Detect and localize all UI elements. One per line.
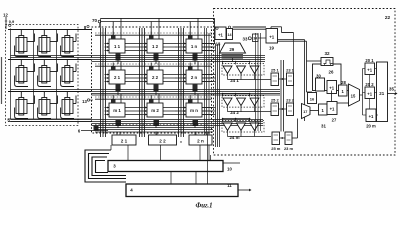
counter block 27: [327, 102, 337, 115]
dashed line matrix bottom: [95, 124, 208, 126]
wire bus3 to bus4 vertical b: [195, 172, 197, 185]
svg-text:+1: +1: [330, 107, 335, 112]
cell column divider wire b: [56, 30, 58, 120]
svg-text:23 1: 23 1: [286, 68, 295, 73]
row select dashed wire: [95, 32, 212, 34]
vertical drops to row blocks 2x: [116, 132, 118, 136]
wire vertical x293: [293, 33, 295, 104]
wires matrix row1 to box22: [202, 43, 216, 45]
wire left margin: [1, 57, 3, 104]
wire 14 to 19 top bus: [233, 26, 267, 28]
element block 28: [339, 85, 348, 96]
matrix cell block 1 n: [182, 18, 214, 64]
counter block 20 2: [365, 87, 375, 99]
bottom cell-box bus wire a: [8, 118, 91, 120]
DAC group box 24 2 dashed border: [222, 96, 264, 108]
counter block in 26: [327, 81, 337, 94]
node 33 terminal: [248, 37, 251, 40]
ellipsis dots: [176, 47, 177, 48]
horizontal bus bundle row2: [11, 89, 281, 91]
svg-text:+1: +1: [329, 86, 334, 91]
svg-text:10: 10: [227, 167, 232, 172]
memory cell transistor pair: [61, 60, 76, 87]
memory cell transistor pair: [38, 92, 58, 119]
row line r1 top: [8, 29, 91, 31]
feed wire 24 m: [223, 118, 250, 120]
wire 27 to 15: [337, 102, 349, 104]
svg-text:12: 12: [3, 13, 8, 18]
wire 32 to 26: [324, 64, 326, 66]
register block 21: [377, 62, 388, 122]
control unit box 22 dashed border: [214, 9, 396, 156]
wire box22 drop to bus 4: [207, 132, 209, 185]
DAC triangle 24 m.1: [223, 123, 232, 137]
wire 26 to 27: [331, 91, 333, 102]
bus block 3: [108, 161, 223, 172]
matrix cell block m 1: [105, 94, 143, 128]
DAC triangle 24 1.1: [223, 66, 232, 80]
label 10 and stub: [223, 162, 240, 164]
matrix cell block 2 n: [182, 61, 214, 95]
svg-text:Фиг.1: Фиг.1: [195, 202, 212, 209]
wire between registers: [279, 78, 287, 80]
memory cell transistor pair: [15, 92, 35, 119]
output wire 35: [387, 93, 396, 95]
register block 23 2: [286, 98, 295, 116]
storage matrix box 5 dashed border: [6, 25, 79, 126]
wire 16 to 26 drop: [307, 91, 313, 93]
DAC triangle 24 m.3: [250, 123, 259, 137]
bus wire top a: [101, 17, 215, 19]
svg-text:+1: +1: [269, 35, 275, 40]
svg-text:31: 31: [321, 124, 326, 129]
wire 20m to 21 stub: [370, 122, 372, 124]
counter block 20 m: [366, 109, 376, 122]
wire 15 to 20 bus: [360, 94, 363, 96]
register block 2 n: [189, 135, 212, 145]
matrix cell block m n: [182, 94, 214, 128]
vertical bundle x255-261: [255, 33, 257, 131]
memory cell transistor pair: [38, 30, 58, 57]
svg-text:14: 14: [228, 33, 232, 37]
matrix cell block m 2: [143, 94, 182, 128]
row select dashed wire: [95, 96, 212, 98]
svg-text:25 2: 25 2: [271, 98, 280, 103]
svg-text:1 2: 1 2: [152, 44, 159, 49]
wire 12 vertical: [5, 17, 7, 29]
horizontal bus bundle matrix bottom: [95, 127, 213, 129]
left feed wires into box 22: [215, 44, 217, 147]
row select bus wire: [95, 34, 212, 36]
svg-text:25 1: 25 1: [271, 68, 280, 73]
register block 30: [316, 78, 325, 91]
svg-text:m 1: m 1: [113, 108, 121, 113]
multiplexer trapezoid 15: [349, 84, 360, 106]
memory cell transistor pair: [61, 30, 76, 57]
element block 16: [308, 93, 317, 104]
wire 17 to 27: [310, 110, 319, 112]
ellipsis dots: [176, 78, 177, 79]
register block 2 1: [112, 135, 136, 145]
feed wire 24 2: [223, 93, 250, 95]
wires matrix row2 to box22: [202, 74, 216, 76]
row separator wire 3: [8, 91, 91, 93]
wire 20-1 to 20-2: [369, 75, 371, 88]
svg-text:21: 21: [379, 91, 384, 96]
register block 14: [227, 26, 233, 40]
svg-text:22: 22: [385, 15, 391, 21]
horizontal bus bundle row1: [11, 55, 266, 57]
wires brackets up: [110, 145, 112, 150]
dot between 2 2 and 2 n: [180, 141, 181, 142]
svg-text:24 m: 24 m: [229, 135, 239, 140]
wire 6: [81, 130, 108, 132]
collector lines under 29: [222, 54, 244, 56]
matrix cell block 2 2: [143, 61, 182, 95]
wire 29 drops: [232, 58, 234, 61]
wire top bus bend into box22: [214, 18, 216, 44]
wire top drop col1: [100, 18, 102, 28]
group block 26: [313, 64, 342, 91]
output bus 24 m: [228, 136, 272, 138]
ellipsis dots: [176, 111, 177, 112]
svg-text:0,9: 0,9: [9, 19, 15, 24]
DAC triangle 24 1.2: [237, 66, 246, 80]
svg-text:2 n: 2 n: [197, 139, 204, 144]
svg-text:19: 19: [269, 46, 274, 51]
bus wire top b: [101, 21, 215, 23]
svg-text:24 2: 24 2: [230, 110, 239, 115]
matrix cell block 1 1: [105, 18, 143, 64]
DAC group box 24 1 dashed border: [222, 64, 264, 76]
output bus 24 1: [228, 79, 272, 81]
wire between registers: [279, 108, 287, 110]
wires 20 to 21: [375, 68, 377, 70]
svg-text:18: 18: [216, 42, 221, 47]
DAC triangle 24 2.1: [223, 98, 232, 112]
connector bar 6: [94, 126, 99, 132]
nested bus brackets left: [85, 150, 126, 182]
svg-text:25 m: 25 m: [271, 146, 281, 151]
svg-text:35: 35: [389, 87, 394, 92]
vertical bus bundle col2: [139, 28, 141, 137]
svg-text:28: 28: [341, 80, 346, 85]
svg-text:23 m: 23 m: [284, 146, 294, 151]
counter block 18: [215, 27, 226, 40]
cell column divider wire a: [33, 30, 35, 120]
svg-text:32: 32: [324, 51, 330, 56]
funnel block 29: [220, 43, 246, 53]
DAC group box 24 m dashed border: [222, 121, 264, 133]
svg-text:27: 27: [332, 118, 337, 123]
wire 20-2 to 20-m: [369, 99, 371, 110]
element block 34: [253, 34, 259, 42]
wire 28 to 15: [347, 90, 349, 92]
vertical wire x209: [208, 33, 210, 161]
svg-text:23 2: 23 2: [286, 98, 295, 103]
svg-text:70: 70: [92, 18, 98, 23]
memory cell transistor pair: [38, 60, 58, 87]
bottom cell-box bus wire b: [8, 121, 91, 123]
DAC triangle 24 2.3: [250, 98, 259, 112]
row select bus wire: [95, 65, 212, 67]
wire 23m to 17: [292, 137, 298, 139]
svg-text:+1: +1: [367, 92, 372, 97]
wire between registers: [280, 137, 286, 139]
matrix cell block 2 1: [105, 61, 143, 95]
row select bus wire: [95, 98, 212, 100]
svg-text:26: 26: [329, 70, 334, 75]
svg-text:33: 33: [243, 37, 248, 42]
svg-text:29: 29: [229, 47, 234, 52]
svg-text:13: 13: [82, 99, 87, 104]
wire vertical double bus x305: [304, 40, 306, 122]
vertical bus bundle col1: [100, 28, 102, 137]
svg-text:1 1: 1 1: [114, 44, 121, 49]
vertical bus bundle col3: [178, 28, 180, 137]
node 70 terminal: [98, 20, 101, 23]
svg-text:1 n: 1 n: [191, 44, 198, 49]
commutation matrix box 70 dashed border: [92, 27, 212, 133]
svg-text:16: 16: [310, 97, 315, 102]
wire bus3 to bus4 vertical a: [170, 172, 172, 185]
element block before 27: [319, 104, 328, 115]
memory cell transistor pair: [61, 92, 76, 119]
svg-text:m 2: m 2: [151, 108, 159, 113]
svg-text:20 1: 20 1: [365, 58, 374, 63]
node 0/9 terminal: [9, 24, 11, 26]
vertical bus right of col3: [204, 28, 206, 137]
svg-text:24 1: 24 1: [230, 78, 239, 83]
svg-text:11: 11: [227, 183, 232, 188]
wire 34 to 19: [258, 37, 266, 39]
svg-text:15: 15: [351, 94, 356, 99]
DAC triangle 24 2.2: [237, 98, 246, 112]
DAC triangle 24 1.3: [250, 66, 259, 80]
matrix cell block 1 2: [143, 18, 182, 64]
wire 19 top to right: [270, 27, 272, 29]
svg-text:2 2: 2 2: [159, 139, 166, 144]
svg-text:20 m: 20 m: [366, 124, 376, 129]
register block 25 1: [271, 68, 280, 86]
svg-text:m n: m n: [190, 108, 198, 113]
left column bus wire: [10, 29, 12, 120]
svg-text:2 1: 2 1: [121, 139, 128, 144]
register block 25 m: [271, 132, 281, 151]
node 13 terminal: [87, 99, 89, 101]
bus block 4: [126, 184, 238, 197]
output bus 24 2: [228, 111, 272, 113]
output wire 11: [238, 189, 250, 191]
feed wire 24 1: [223, 61, 250, 63]
horizontal bus bundle row3: [11, 119, 264, 121]
selector trapezoid 17: [302, 104, 311, 119]
row select dashed wire: [95, 63, 212, 65]
wires 2x blocks tops: [119, 132, 121, 136]
wires 2x blocks down to bus 3: [127, 145, 129, 161]
svg-text:+1: +1: [369, 114, 374, 119]
wire bus to 32: [307, 60, 322, 62]
register block 25 2: [271, 98, 280, 116]
register block 2 2: [149, 135, 177, 145]
svg-text:2 n: 2 n: [191, 75, 198, 80]
vertical wire x206.5: [206, 28, 208, 137]
register block 23 m: [284, 132, 294, 151]
svg-text:+1: +1: [218, 33, 223, 38]
row separator wire 2: [8, 59, 91, 61]
memory cell transistor pair: [15, 60, 35, 87]
svg-text:+1: +1: [367, 68, 372, 73]
counter block 19: [266, 29, 278, 44]
memory cell transistor pair: [15, 30, 35, 57]
vertical bus wires x281: [280, 60, 282, 132]
svg-text:17: 17: [303, 110, 307, 114]
wire 19 output double bus: [278, 39, 305, 41]
contact block 32: [321, 58, 333, 66]
DAC triangle 24 m.2: [237, 123, 246, 137]
svg-text:2 2: 2 2: [152, 75, 159, 80]
counter block 20 1: [365, 63, 375, 75]
register block 23 1: [286, 68, 295, 86]
svg-text:2 1: 2 1: [114, 75, 121, 80]
wires matrix row3 to box22: [202, 107, 216, 109]
